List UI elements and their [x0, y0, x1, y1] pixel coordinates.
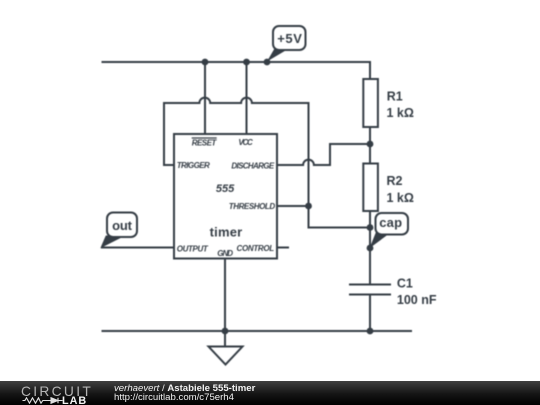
svg-text:TRIGGER: TRIGGER	[177, 161, 210, 170]
svg-text:out: out	[112, 218, 133, 233]
svg-text:cap: cap	[379, 215, 402, 230]
svg-text:VCC: VCC	[238, 138, 253, 147]
svg-text:R1: R1	[387, 90, 403, 104]
svg-text:CONTROL: CONTROL	[237, 244, 275, 253]
svg-text:OUTPUT: OUTPUT	[177, 245, 209, 254]
svg-text:DISCHARGE: DISCHARGE	[231, 161, 274, 170]
svg-text:100 nF: 100 nF	[397, 293, 437, 307]
svg-text:THRESHOLD: THRESHOLD	[229, 202, 276, 211]
svg-text:555: 555	[216, 183, 235, 195]
svg-text:1 kΩ: 1 kΩ	[387, 106, 414, 120]
svg-text:R2: R2	[387, 174, 403, 188]
svg-text:1 kΩ: 1 kΩ	[387, 191, 414, 205]
svg-text:C1: C1	[397, 277, 413, 291]
svg-text:+5V: +5V	[277, 31, 302, 46]
svg-text:RESET: RESET	[192, 138, 218, 147]
svg-text:GND: GND	[217, 249, 233, 258]
svg-text:timer: timer	[210, 225, 243, 240]
